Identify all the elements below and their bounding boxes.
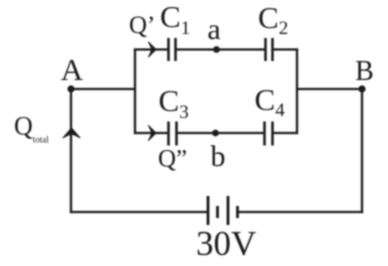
svg-text:b: b: [211, 140, 226, 173]
wire inner-right vertical to B: [297, 88, 362, 90]
svg-text:Q”: Q”: [158, 146, 187, 173]
wire left outer vertical: [70, 89, 72, 213]
arrow Qtotal on left vertical: [63, 128, 80, 138]
wire bottom right segment: [239, 211, 364, 213]
wire bottom branch left segment: [134, 132, 168, 134]
battery 30V: [208, 196, 238, 225]
svg-text:Q’: Q’: [129, 12, 155, 39]
svg-text:A: A: [61, 52, 84, 87]
wire right outer vertical: [361, 89, 363, 213]
svg-text:B: B: [355, 56, 374, 87]
wire top branch middle segment: [177, 48, 265, 50]
arrow Q'' on bottom branch: [148, 126, 156, 141]
node b: [212, 130, 219, 137]
svg-text:C4: C4: [255, 82, 286, 121]
svg-text:Qtotal: Qtotal: [14, 112, 49, 145]
node a: [213, 46, 220, 53]
capacitor C1: [169, 38, 176, 61]
wire inner-right vertical: [296, 48, 298, 134]
wire inner-left vertical: [134, 48, 136, 134]
wire top branch right segment: [274, 48, 299, 50]
wire bottom left segment: [70, 211, 207, 213]
wire top branch left segment: [134, 48, 168, 50]
svg-text:C3: C3: [159, 83, 189, 123]
capacitor C2: [266, 38, 273, 61]
node B: [358, 85, 365, 92]
capacitor C4: [265, 122, 273, 146]
arrow Q' on top branch: [148, 42, 156, 57]
svg-text:a: a: [207, 13, 220, 46]
wire bottom branch right segment: [274, 132, 299, 134]
capacitor C3: [169, 122, 177, 146]
wire bottom branch middle segment: [178, 132, 264, 134]
svg-text:C1: C1: [160, 0, 190, 39]
svg-text:C2: C2: [258, 0, 288, 39]
svg-text:30V: 30V: [196, 224, 256, 263]
node A: [67, 85, 74, 92]
wire A to inner-left vertical: [71, 88, 135, 90]
